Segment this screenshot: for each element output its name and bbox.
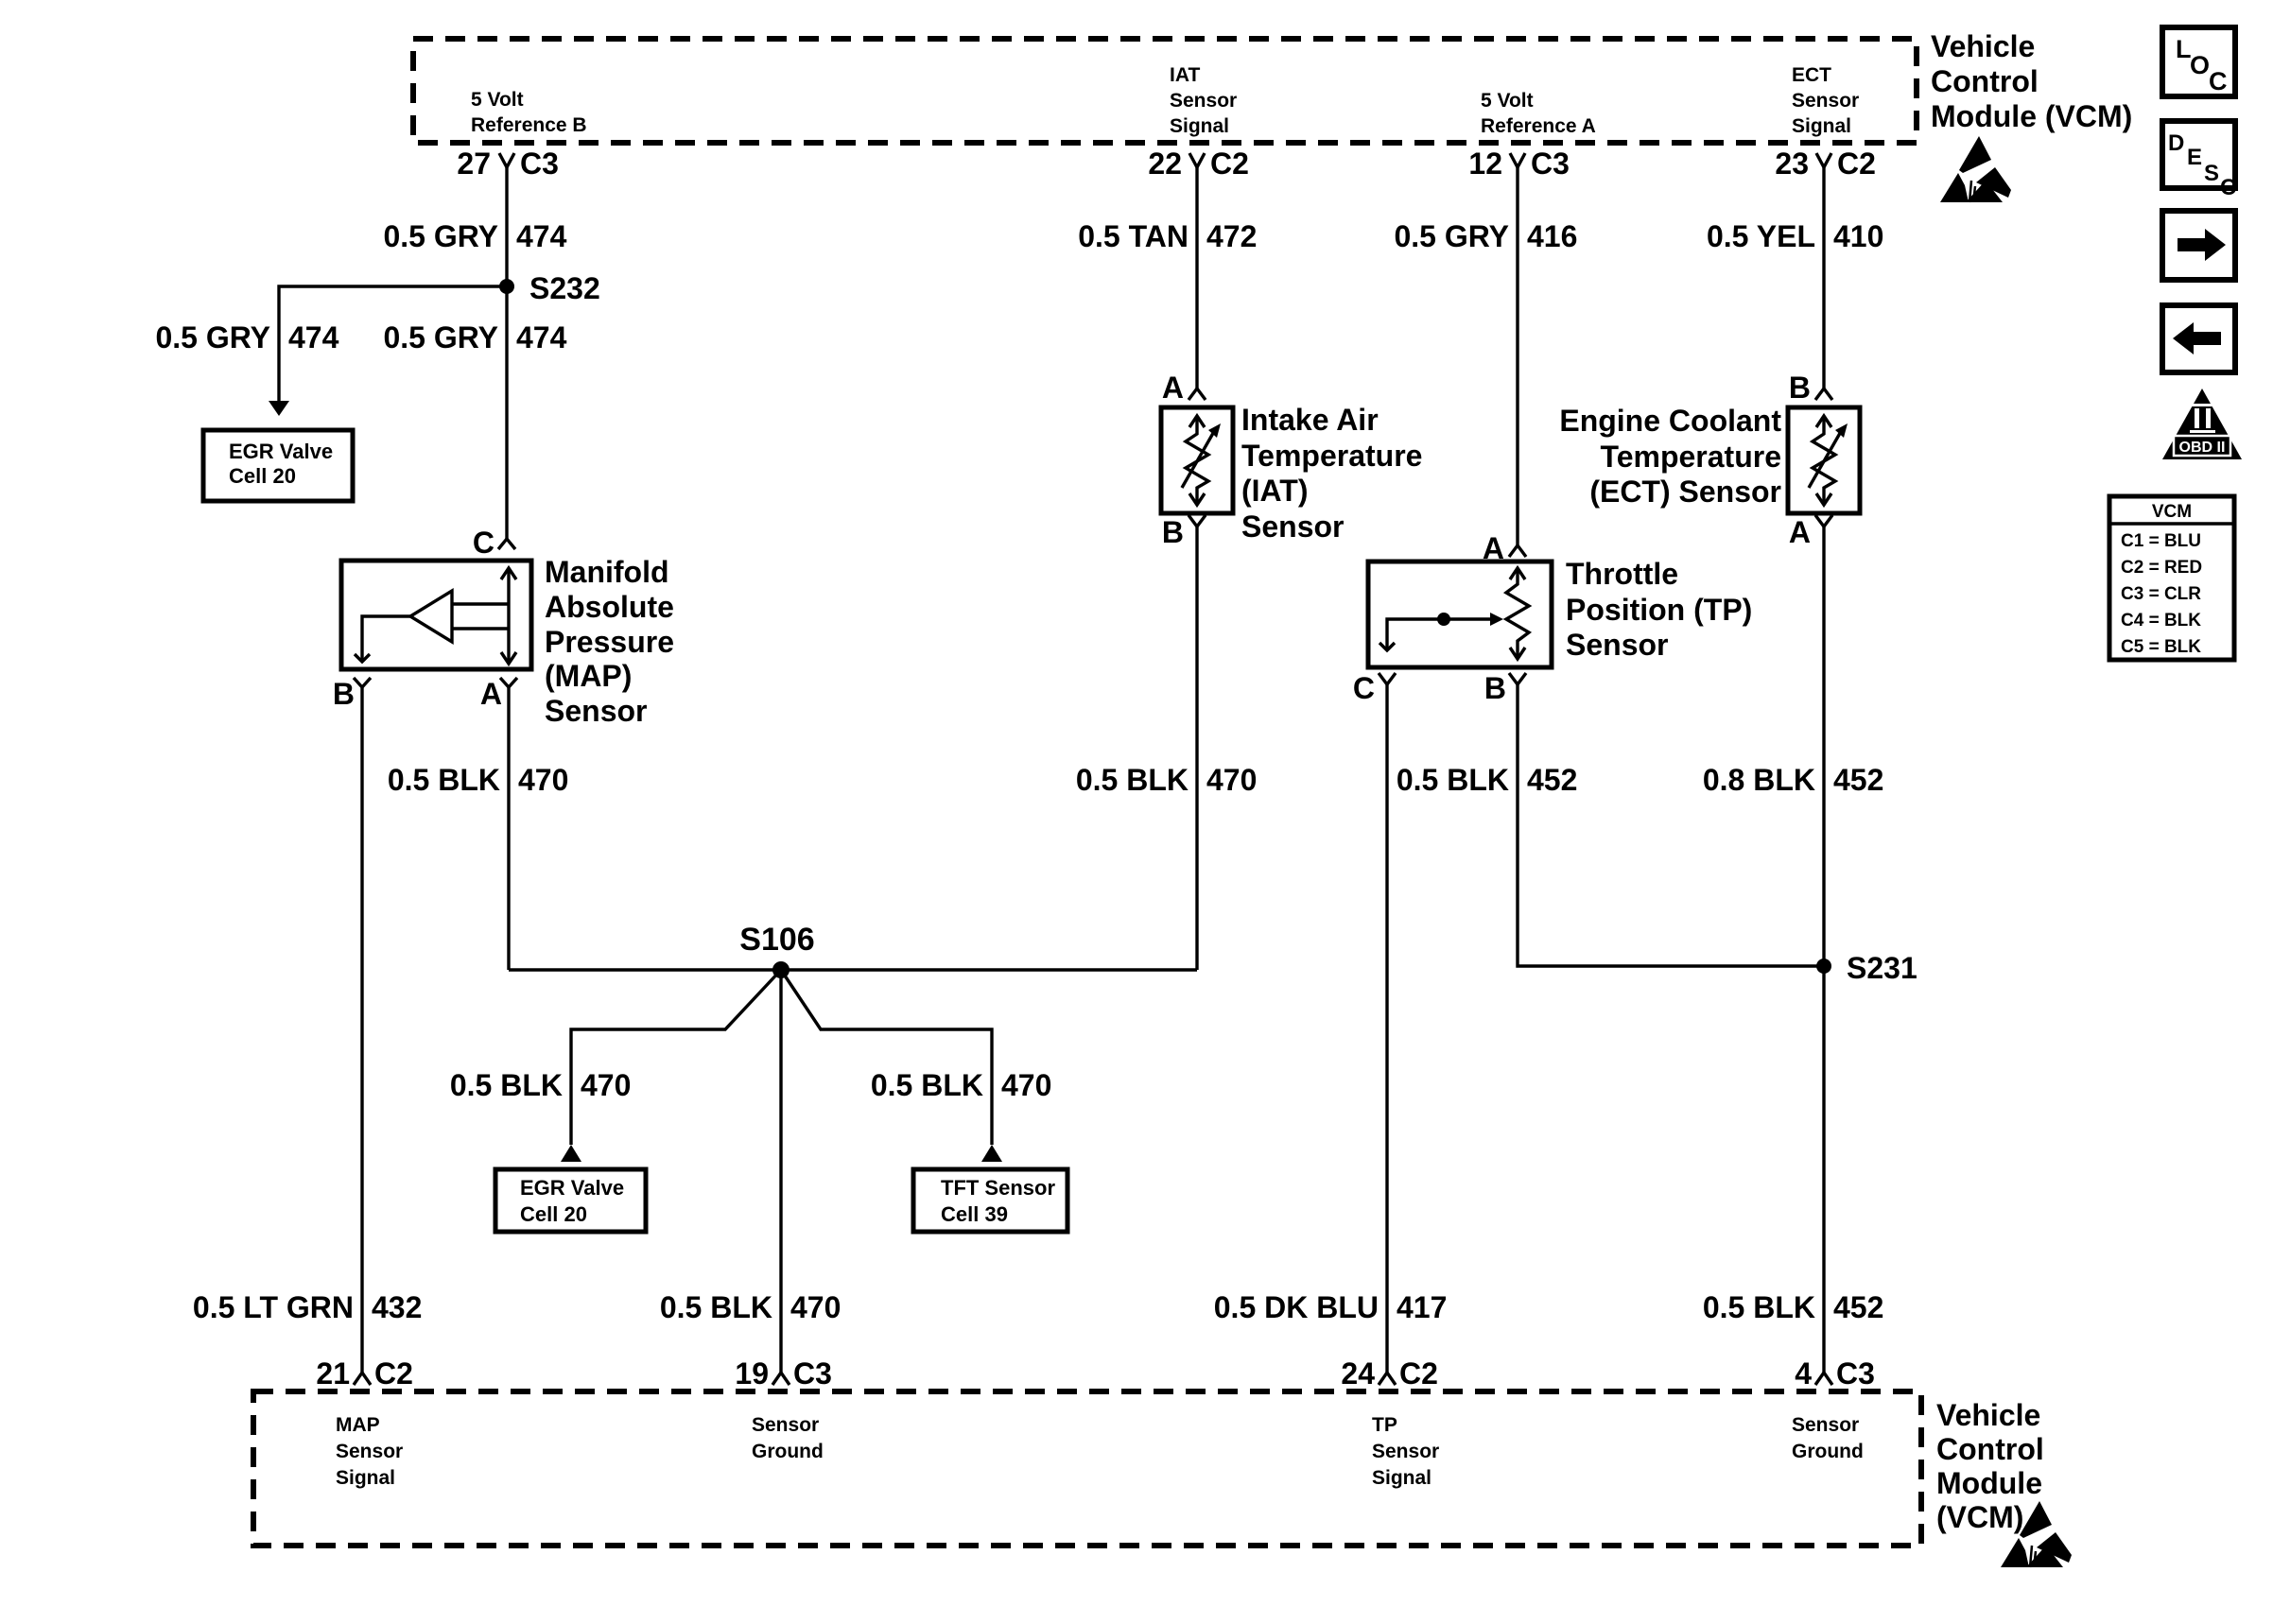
wire label 0.5 BLK 452 (bottom right) (1703, 1290, 1884, 1324)
svg-text:S232: S232 (529, 271, 600, 305)
svg-text:C2: C2 (374, 1356, 413, 1391)
svg-text:0.5 DK BLU: 0.5 DK BLU (1214, 1290, 1379, 1324)
pin B of ECT sensor (1789, 371, 1832, 405)
svg-text:0.5 BLK: 0.5 BLK (660, 1290, 772, 1324)
wire label 0.5 DK BLU 417 (1214, 1290, 1448, 1324)
svg-text:416: 416 (1527, 219, 1577, 253)
svg-text:0.5 BLK: 0.5 BLK (871, 1068, 983, 1102)
pin B of TP sensor (1484, 671, 1526, 705)
svg-text:452: 452 (1527, 763, 1577, 797)
svg-text:474: 474 (516, 320, 567, 354)
svg-text:Cell 20: Cell 20 (229, 464, 296, 488)
svg-text:5 Volt: 5 Volt (471, 89, 524, 111)
svg-text:C2: C2 (1837, 147, 1876, 181)
svg-text:Sensor: Sensor (545, 694, 647, 728)
wire 472 from pin 22 to IAT A (1195, 167, 1198, 389)
MAP sensor box (341, 561, 531, 669)
pin 21 C2 (316, 1356, 413, 1391)
wire label 0.5 LT GRN 432 (193, 1290, 422, 1324)
wire label 0.8 BLK 452 (ECT A) (1703, 763, 1884, 797)
svg-text:C1 = BLU: C1 = BLU (2121, 531, 2201, 551)
svg-text:C4 = BLK: C4 = BLK (2121, 611, 2201, 631)
svg-text:C3 = CLR: C3 = CLR (2121, 584, 2201, 604)
svg-text:0.5 TAN: 0.5 TAN (1078, 219, 1189, 253)
svg-text:0.5 BLK: 0.5 BLK (1076, 763, 1189, 797)
svg-text:Control: Control (1931, 64, 2039, 98)
wire MAP B to pin 21 (360, 687, 363, 1373)
TP sensor box (1368, 561, 1552, 667)
svg-text:(IAT): (IAT) (1241, 474, 1308, 508)
wire IAT B to S106 (1195, 527, 1198, 970)
VCM connector color legend table (2109, 496, 2234, 660)
svg-text:0.5 GRY: 0.5 GRY (1394, 219, 1509, 253)
svg-text:Vehicle: Vehicle (1936, 1398, 2040, 1432)
svg-text:S231: S231 (1847, 951, 1917, 985)
VCM bottom module dashed box (253, 1391, 1921, 1546)
svg-text:Throttle: Throttle (1566, 557, 1678, 591)
ESD warning symbol top right (1940, 136, 2011, 202)
svg-text:C: C (2209, 67, 2228, 95)
svg-text:24: 24 (1341, 1356, 1375, 1391)
svg-text:Sensor: Sensor (1566, 628, 1668, 662)
wire MAP A to S106 (507, 687, 510, 970)
svg-text:Intake Air: Intake Air (1241, 403, 1379, 437)
pin A of TP sensor (1483, 531, 1526, 565)
svg-text:470: 470 (518, 763, 568, 797)
svg-text:A: A (1789, 515, 1811, 549)
svg-text:Pressure: Pressure (545, 625, 674, 659)
svg-text:Reference A: Reference A (1481, 115, 1596, 137)
wire label 0.5 BLK 470 (MAP A) (388, 763, 569, 797)
svg-text:C: C (473, 526, 495, 560)
wire label 0.5 BLK 470 (sensor ground) (660, 1290, 842, 1324)
DESC icon box (2162, 121, 2236, 200)
svg-text:S: S (2204, 161, 2219, 186)
svg-text:Position (TP): Position (TP) (1566, 593, 1752, 627)
svg-text:0.8 BLK: 0.8 BLK (1703, 763, 1815, 797)
svg-text:ECT: ECT (1792, 64, 1831, 86)
wire label 0.5 BLK 452 (TP B) (1397, 763, 1578, 797)
svg-text:Module (VCM): Module (VCM) (1931, 99, 2132, 133)
wire label 0.5 YEL 410 (1707, 219, 1883, 253)
wire label 0.5 BLK 470 (EGR branch) (450, 1068, 632, 1102)
svg-text:O: O (2190, 51, 2210, 79)
svg-text:4: 4 (1795, 1356, 1812, 1391)
svg-text:Module: Module (1936, 1466, 2042, 1500)
svg-text:0.5 LT GRN: 0.5 LT GRN (193, 1290, 354, 1324)
svg-text:Ground: Ground (1792, 1441, 1864, 1462)
svg-text:0.5 YEL: 0.5 YEL (1707, 219, 1815, 253)
svg-text:12: 12 (1468, 147, 1502, 181)
right arrow icon box (2162, 211, 2235, 280)
net label 5 Volt Reference A (1481, 90, 1596, 137)
svg-text:474: 474 (288, 320, 339, 354)
svg-text:TP: TP (1372, 1414, 1397, 1436)
wire ECT A through S231 to pin 4 (1822, 527, 1825, 1373)
svg-text:452: 452 (1833, 763, 1883, 797)
pin 22 C2 (1148, 147, 1249, 181)
pin 12 C3 (1468, 147, 1570, 181)
svg-text:474: 474 (516, 219, 567, 253)
svg-text:19: 19 (735, 1356, 769, 1391)
svg-text:0.5 BLK: 0.5 BLK (1397, 763, 1509, 797)
svg-text:E: E (2187, 145, 2202, 170)
pin 24 C2 (1341, 1356, 1438, 1391)
svg-text:0.5 BLK: 0.5 BLK (1703, 1290, 1815, 1324)
svg-text:B: B (1789, 371, 1811, 405)
pin 27 C3 (457, 147, 559, 181)
svg-text:C3: C3 (1531, 147, 1570, 181)
svg-text:C2: C2 (1210, 147, 1249, 181)
wire label 0.5 GRY 474 row1 (383, 219, 566, 253)
pin B of MAP sensor (333, 677, 371, 711)
wire label 0.5 BLK 470 (IAT B) (1076, 763, 1258, 797)
svg-text:470: 470 (1001, 1068, 1051, 1102)
svg-text:Cell 39: Cell 39 (941, 1202, 1008, 1226)
svg-text:(ECT) Sensor: (ECT) Sensor (1589, 475, 1781, 509)
label Vehicle Control Module (VCM) bottom right (1936, 1398, 2044, 1534)
pin 23 C2 (1775, 147, 1876, 181)
svg-text:B: B (1484, 671, 1506, 705)
net label MAP Sensor Signal (336, 1414, 403, 1489)
pin 19 C3 (735, 1356, 832, 1391)
ECT thermistor symbol (1809, 416, 1848, 505)
net label ECT Sensor Signal (1792, 64, 1859, 137)
wire branch from S232 to EGR Valve (269, 286, 507, 416)
pin A of IAT sensor (1162, 371, 1206, 405)
svg-text:Engine Coolant: Engine Coolant (1559, 404, 1781, 438)
svg-text:C: C (1353, 671, 1375, 705)
label Intake Air Temperature (IAT) Sensor (1241, 403, 1422, 544)
svg-text:Sensor: Sensor (1792, 1414, 1859, 1436)
wire TP C to pin 24 (1385, 684, 1388, 1373)
svg-text:TFT Sensor: TFT Sensor (941, 1176, 1055, 1200)
svg-text:Sensor: Sensor (752, 1414, 819, 1436)
svg-text:S106: S106 (739, 922, 814, 958)
svg-text:0.5 GRY: 0.5 GRY (155, 320, 270, 354)
svg-text:417: 417 (1397, 1290, 1447, 1324)
wire label 0.5 GRY 416 (1394, 219, 1577, 253)
EGR Valve Cell 20 box (center) (495, 1169, 646, 1232)
svg-text:452: 452 (1833, 1290, 1883, 1324)
label Vehicle Control Module (VCM) top right (1931, 29, 2132, 133)
svg-text:VCM: VCM (2152, 502, 2192, 522)
svg-text:Vehicle: Vehicle (1931, 29, 2035, 63)
svg-text:EGR Valve: EGR Valve (520, 1176, 624, 1200)
svg-text:Signal: Signal (1792, 115, 1851, 137)
svg-text:432: 432 (372, 1290, 422, 1324)
wire label 0.5 BLK 470 (TFT branch) (871, 1068, 1052, 1102)
ECT sensor box (1788, 407, 1860, 513)
wire label 0.5 GRY 474 below S232 (383, 320, 566, 354)
svg-text:470: 470 (581, 1068, 631, 1102)
wire S106 to pin 19 (779, 970, 782, 1373)
svg-text:0.5 BLK: 0.5 BLK (450, 1068, 563, 1102)
pin B of IAT sensor (1162, 515, 1206, 549)
svg-text:472: 472 (1206, 219, 1257, 253)
svg-text:21: 21 (316, 1356, 350, 1391)
svg-text:Reference B: Reference B (471, 114, 587, 136)
net label TP Sensor Signal (1372, 1414, 1439, 1489)
wire label 0.5 TAN 472 (1078, 219, 1257, 253)
EGR Valve Cell 20 box (left) (203, 430, 353, 501)
pin A of ECT sensor (1789, 515, 1832, 549)
svg-text:Signal: Signal (1170, 115, 1229, 137)
pin C of MAP sensor (473, 526, 515, 560)
svg-text:A: A (1162, 371, 1184, 405)
svg-text:0.5 BLK: 0.5 BLK (388, 763, 500, 797)
pin 4 C3 (1795, 1356, 1875, 1391)
wire S106 branch to EGR Valve (561, 970, 781, 1162)
net label Sensor Ground (right) (1792, 1414, 1864, 1462)
svg-text:B: B (1162, 515, 1184, 549)
svg-text:IAT: IAT (1170, 64, 1200, 86)
wire S106 horizontal bus (509, 968, 1197, 971)
splice S232 (499, 271, 600, 305)
svg-text:470: 470 (1206, 763, 1257, 797)
svg-text:(MAP): (MAP) (545, 659, 632, 693)
svg-text:Ground: Ground (752, 1441, 824, 1462)
TP potentiometer symbol (1379, 568, 1529, 659)
wire label 0.5 GRY 474 branch left (155, 320, 338, 354)
svg-text:A: A (480, 677, 502, 711)
VCM top module dashed box (413, 39, 1917, 143)
wire 410 from pin 23 to ECT B (1822, 167, 1825, 389)
svg-text:C5 = BLK: C5 = BLK (2121, 637, 2201, 657)
svg-text:22: 22 (1148, 147, 1182, 181)
svg-text:0.5 GRY: 0.5 GRY (383, 219, 498, 253)
svg-text:Temperature: Temperature (1601, 440, 1781, 474)
svg-text:Cell 20: Cell 20 (520, 1202, 587, 1226)
svg-text:Sensor: Sensor (1372, 1441, 1439, 1462)
svg-text:C3: C3 (520, 147, 559, 181)
svg-text:0.5 GRY: 0.5 GRY (383, 320, 498, 354)
svg-text:MAP: MAP (336, 1414, 380, 1436)
svg-text:Sensor: Sensor (1170, 90, 1237, 112)
pin C of TP sensor (1353, 671, 1396, 705)
ESD warning symbol bottom right (2001, 1501, 2072, 1567)
svg-text:Control: Control (1936, 1432, 2044, 1466)
svg-text:C2 = RED: C2 = RED (2121, 558, 2202, 578)
svg-text:OBD II: OBD II (2179, 440, 2226, 456)
IAT thermistor symbol (1182, 416, 1221, 505)
svg-text:EGR Valve: EGR Valve (229, 440, 333, 463)
svg-text:Manifold: Manifold (545, 555, 669, 589)
svg-text:Sensor: Sensor (1792, 90, 1859, 112)
label Engine Coolant Temperature (ECT) Sensor (1559, 404, 1781, 509)
svg-text:C2: C2 (1399, 1356, 1438, 1391)
svg-text:23: 23 (1775, 147, 1809, 181)
splice S106 (739, 922, 814, 978)
svg-text:B: B (333, 677, 355, 711)
svg-text:(VCM): (VCM) (1936, 1500, 2023, 1534)
wire 416 from pin 12 to TP A (1516, 167, 1518, 545)
wire S106 branch to TFT Sensor (781, 970, 1002, 1162)
splice S231 (1816, 951, 1917, 985)
net label 5 Volt Reference B (471, 89, 587, 136)
svg-text:Sensor: Sensor (336, 1441, 403, 1462)
label Throttle Position (TP) Sensor (1566, 557, 1752, 662)
svg-text:5 Volt: 5 Volt (1481, 90, 1534, 112)
svg-text:D: D (2168, 130, 2184, 156)
svg-text:Signal: Signal (336, 1467, 395, 1489)
svg-text:Temperature: Temperature (1241, 439, 1422, 473)
svg-text:470: 470 (790, 1290, 841, 1324)
svg-text:C3: C3 (1836, 1356, 1875, 1391)
svg-text:27: 27 (457, 147, 491, 181)
net label Sensor Ground (left) (752, 1414, 824, 1462)
left arrow icon box (2162, 305, 2235, 372)
svg-text:Absolute: Absolute (545, 590, 674, 624)
LOC icon box (2162, 27, 2235, 96)
TFT Sensor Cell 39 box (913, 1169, 1067, 1232)
pin A of MAP sensor (480, 677, 517, 711)
svg-text:C: C (2220, 175, 2236, 200)
wire TP B to S231 (1518, 684, 1824, 966)
svg-text:410: 410 (1833, 219, 1883, 253)
label Manifold Absolute Pressure (MAP) Sensor (545, 555, 674, 728)
MAP sensor internal symbol (355, 568, 516, 664)
svg-text:Signal: Signal (1372, 1467, 1431, 1489)
net label IAT Sensor Signal (1170, 64, 1237, 137)
IAT sensor box (1161, 407, 1233, 513)
wire 474 from pin 27 to MAP C (505, 167, 508, 539)
svg-text:C3: C3 (793, 1356, 832, 1391)
svg-text:Sensor: Sensor (1241, 510, 1344, 544)
OBD II triangle icon (2162, 389, 2242, 459)
